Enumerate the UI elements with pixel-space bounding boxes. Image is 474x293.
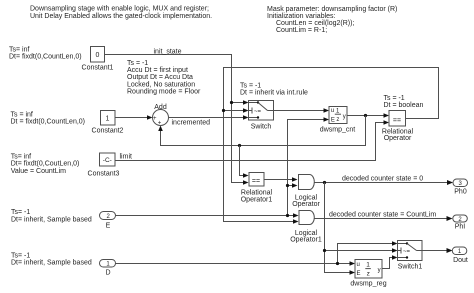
- port Ph0 (outport 3): [453, 179, 468, 196]
- svg-text:CountLen = ceil(log2(R));: CountLen = ceil(log2(R));: [276, 20, 354, 27]
- svg-text:PhI: PhI: [455, 224, 466, 231]
- svg-text:Ph0: Ph0: [454, 189, 467, 196]
- svg-text:Dt= fixdt(0,CoutLen,0): Dt= fixdt(0,CoutLen,0): [11, 161, 80, 168]
- svg-text:Locked, No saturation: Locked, No saturation: [127, 81, 195, 88]
- svg-text:z: z: [367, 271, 370, 278]
- svg-text:Operator: Operator: [292, 201, 320, 208]
- svg-text:Unit Delay Enabled allows the: Unit Delay Enabled allows the gated-cloc…: [30, 13, 212, 20]
- svg-text:1: 1: [106, 116, 110, 123]
- constant C1 (value 0): [82, 47, 114, 72]
- svg-text:Relational: Relational: [241, 190, 273, 197]
- annotation: Constant1 params: [9, 47, 82, 61]
- wire: Logical Operator to Ph0 port: [315, 180, 454, 185]
- svg-text:1: 1: [366, 262, 370, 269]
- annotation: Relational Operator params: [384, 95, 424, 109]
- svg-text:z: z: [336, 117, 339, 123]
- svg-text:Dt = inherit via int.rule: Dt = inherit via int.rule: [240, 90, 308, 97]
- svg-text:incremented: incremented: [172, 119, 211, 126]
- svg-text:Accu Dt = first input: Accu Dt = first input: [127, 67, 188, 74]
- wire: Ph0 signal down to Switch1 control and dwsmp_reg E: [325, 183, 398, 275]
- annotation: E port params: [11, 209, 92, 224]
- junction: counter value to Relational Operator1: [238, 144, 241, 147]
- wire: dwsmp_cnt y to Relational Operator in1: [347, 113, 389, 118]
- wire: Constant3 limit to Relational Operator in2: [115, 120, 389, 160]
- junction: Ph0 branch down: [323, 181, 326, 184]
- comparator U2: Relational Operator (==): [382, 111, 414, 143]
- svg-text:dwsmp_cnt: dwsmp_cnt: [320, 127, 355, 134]
- annotation: Constant3 params: [11, 153, 80, 175]
- register U1: dwsmp_cnt (enabled unit delay): [320, 107, 355, 134]
- svg-text:Ts = -1: Ts = -1: [127, 60, 148, 67]
- svg-text:decoded counter state = CountL: decoded counter state = CountLim: [329, 212, 436, 219]
- svg-text:~=: ~=: [403, 249, 411, 255]
- svg-text:CountLim = R-1;: CountLim = R-1;: [276, 27, 327, 34]
- svg-text:Operator: Operator: [384, 135, 412, 142]
- svg-text:Value = CountLim: Value = CountLim: [11, 168, 66, 175]
- svg-text:Ts= inf: Ts= inf: [9, 47, 29, 54]
- svg-text:Dt= inherit, Sample based: Dt= inherit, Sample based: [11, 260, 92, 267]
- svg-text:Ts= inf: Ts= inf: [11, 153, 31, 160]
- svg-text:y: y: [378, 268, 381, 274]
- port D (inport 1): [100, 260, 116, 277]
- svg-text:==: ==: [393, 118, 401, 125]
- port E (inport 2): [100, 212, 116, 230]
- annotation: Constant2 params: [11, 112, 86, 126]
- svg-text:==: ==: [252, 178, 260, 185]
- svg-text:Ts = -1: Ts = -1: [384, 95, 405, 102]
- annotation: mask parameter text: [267, 6, 397, 34]
- svg-text:Ts= -1: Ts= -1: [11, 253, 30, 260]
- svg-text:limit: limit: [120, 154, 132, 161]
- svg-text:Rounding mode = Floor: Rounding mode = Floor: [127, 88, 201, 95]
- switch SW1: Switch1: [398, 241, 423, 271]
- svg-text:Downsampling stage with enable: Downsampling stage with enable logic, MU…: [30, 6, 209, 13]
- wire: Relational Operator1 to Logical Operator in1: [264, 177, 298, 182]
- junction: Ph0 control to Switch1: [323, 249, 326, 252]
- svg-text:E: E: [331, 118, 335, 124]
- wire: Constant2 to Add: [115, 115, 153, 120]
- svg-text:y: y: [343, 114, 346, 120]
- junction: counter value branch down: [364, 114, 367, 117]
- svg-text:~=: ~=: [254, 109, 262, 115]
- svg-text:Ts = -1: Ts = -1: [240, 83, 261, 90]
- svg-text:E: E: [357, 271, 361, 277]
- svg-text:Dt= inherit, Sample based: Dt= inherit, Sample based: [11, 217, 92, 224]
- op-amp: Add (sum block): [153, 104, 169, 126]
- svg-text:Initialization variables:: Initialization variables:: [267, 13, 336, 20]
- wire: counter feedback to Add in2: [158, 116, 365, 146]
- svg-text:Output Dt = Accu Dta: Output Dt = Accu Dta: [127, 74, 193, 81]
- register U4: dwsmp_reg (enabled unit delay): [350, 260, 386, 288]
- wire: E port to Logical Operator1 in1, dwsmp_cnt E and Logical Operator in2: [116, 117, 330, 218]
- svg-text:Dout: Dout: [453, 257, 468, 264]
- svg-text:Ts = inf: Ts = inf: [11, 112, 33, 119]
- switch SW (Switch): [249, 101, 274, 131]
- junction: E branch to Logical Operator in2: [286, 184, 289, 187]
- svg-text:u: u: [331, 108, 334, 114]
- constant C2 (value 1): [92, 111, 124, 135]
- svg-text:Constant3: Constant3: [88, 170, 120, 177]
- svg-text:init_state: init_state: [154, 49, 182, 56]
- junction: D branch up to Switch1: [336, 262, 339, 265]
- junction: rollover to Switch in2: [222, 109, 225, 112]
- wire: Add to Switch in3 (incremented): [169, 115, 249, 120]
- svg-text:0: 0: [96, 52, 100, 59]
- comparator U3: Relational Operator1 (==): [241, 173, 273, 204]
- svg-text:D: D: [105, 270, 110, 277]
- svg-text:Switch1: Switch1: [398, 264, 423, 271]
- svg-text:+: +: [158, 120, 162, 126]
- svg-text:u: u: [357, 262, 360, 268]
- junction: init_state to Switch in1: [230, 101, 233, 104]
- wire: counter value to Relational Operator1 in1: [240, 146, 249, 178]
- svg-text:decoded counter state = 0: decoded counter state = 0: [342, 176, 423, 183]
- port Dout (outport 1): [452, 247, 468, 264]
- annotation: title text: [30, 6, 212, 21]
- svg-text:Constant2: Constant2: [92, 128, 124, 135]
- port PhI (outport 2): [453, 215, 468, 231]
- gate G2: Logical Operator1 (AND): [290, 211, 322, 244]
- svg-text:+: +: [153, 116, 157, 122]
- svg-text:Dt = fixdt(0,CountLen,0): Dt = fixdt(0,CountLen,0): [11, 119, 86, 126]
- svg-text:Mask parameter: downsampling f: Mask parameter: downsampling factor (R): [267, 6, 397, 13]
- wire: D port to dwsmp_reg u and Switch1 in1: [116, 241, 398, 266]
- svg-text:Ts= -1: Ts= -1: [11, 209, 30, 216]
- svg-text:Dt = boolean: Dt = boolean: [384, 102, 424, 109]
- annotation: D port params: [11, 253, 92, 267]
- svg-text:Constant1: Constant1: [82, 65, 114, 72]
- wire: dwsmp_reg y to Switch1 in3: [382, 255, 398, 268]
- wire: Relational Operator feedback to Switch in2 and Logical Operator1 in2: [224, 68, 439, 224]
- annotation: Add params: [127, 60, 201, 95]
- svg-text:dwsmp_reg: dwsmp_reg: [350, 281, 386, 288]
- svg-text:Switch: Switch: [251, 124, 272, 131]
- svg-text:Operator1: Operator1: [290, 236, 322, 243]
- constant C3 (value -C-): [88, 153, 120, 177]
- junction: E wire up branch: [286, 214, 289, 217]
- gate G1: Logical Operator (AND): [292, 175, 320, 208]
- wire: Switch1 to Dout port: [422, 248, 453, 253]
- svg-text:Dt= fixdt(0,CountLen,0): Dt= fixdt(0,CountLen,0): [9, 54, 82, 61]
- annotation: Switch params: [240, 83, 308, 97]
- wire: Constant1 init_state to Switch in1 and Relational Operator1 in2: [105, 55, 249, 185]
- wire: Logical Operator1 to PhI port: [314, 216, 453, 221]
- wire: Switch to dwsmp_cnt u: [274, 108, 330, 113]
- svg-text:Add: Add: [154, 104, 167, 111]
- svg-text:E: E: [106, 223, 111, 230]
- svg-text:Operator1: Operator1: [241, 197, 273, 204]
- svg-text:-C-: -C-: [103, 157, 112, 164]
